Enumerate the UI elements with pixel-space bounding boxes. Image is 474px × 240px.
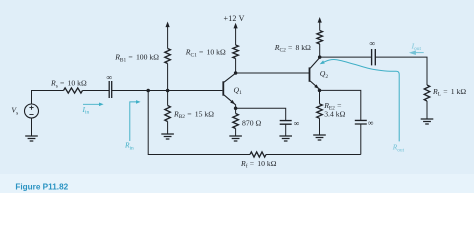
svg-text:∞: ∞	[368, 118, 374, 127]
svg-text:∞: ∞	[294, 119, 300, 128]
svg-text:∞: ∞	[107, 73, 113, 82]
svg-text:∞: ∞	[370, 39, 376, 48]
svg-text:Figure P11.82: Figure P11.82	[15, 183, 68, 192]
svg-text:+12 V: +12 V	[224, 14, 245, 23]
svg-text:870 Ω: 870 Ω	[242, 119, 261, 128]
svg-text:3.4 kΩ: 3.4 kΩ	[324, 110, 345, 119]
